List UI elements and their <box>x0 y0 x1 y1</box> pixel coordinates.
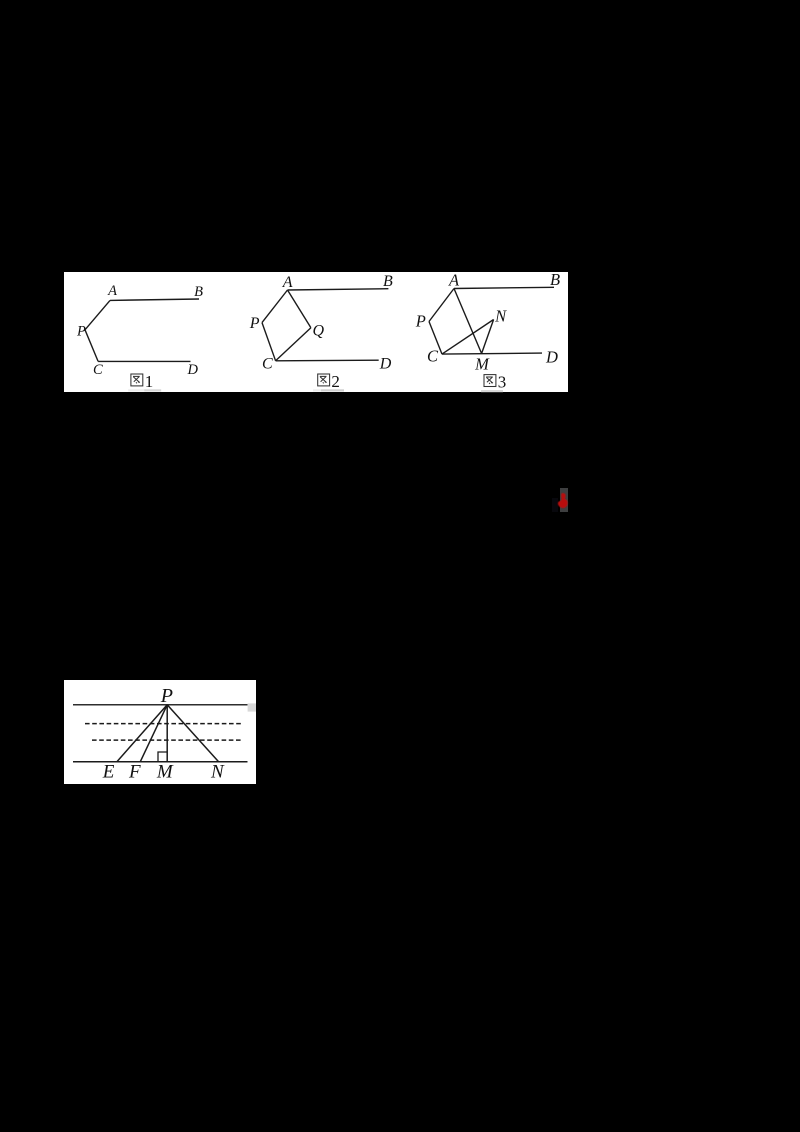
wire: segment P-N <box>167 704 218 761</box>
svg-text:Q: Q <box>313 322 325 339</box>
wire: segment P-C (fig3) <box>429 321 442 354</box>
wire: segment N-M (fig3) <box>482 319 494 353</box>
svg-text:A: A <box>448 272 460 290</box>
wire: segment P-F <box>140 704 167 761</box>
svg-text:D: D <box>187 361 199 377</box>
svg-text:D: D <box>545 347 558 366</box>
wire: segment P-C (fig1) <box>85 329 98 361</box>
wire: segment C-N (fig3) <box>442 319 494 354</box>
wire: dashed line 1 <box>85 722 242 724</box>
svg-text:3: 3 <box>498 372 507 391</box>
svg-text:C: C <box>262 355 273 372</box>
wire: segment P-E <box>117 704 167 761</box>
wire: segment A-P (fig3) <box>429 288 454 321</box>
right-angle mark at M <box>158 752 167 762</box>
svg-text:P: P <box>415 311 426 330</box>
svg-text:F: F <box>128 761 141 782</box>
svg-text:N: N <box>210 761 225 782</box>
wire: segment A-M (fig3) <box>454 288 482 353</box>
wire: segment A-P (fig1) <box>85 300 110 329</box>
caption 图1 <box>131 374 143 386</box>
wire: ray A-B (fig3) <box>454 287 554 288</box>
svg-text:P: P <box>249 314 260 331</box>
wire: segment Q-A (fig2) <box>288 290 311 328</box>
svg-text:1: 1 <box>145 371 154 390</box>
smudge near top-right <box>248 703 256 711</box>
svg-text:N: N <box>494 306 507 325</box>
wire: segment C-Q (fig2) <box>276 327 311 360</box>
red cursor badge <box>552 498 558 512</box>
svg-text:B: B <box>194 284 203 300</box>
wire: ray A-B (fig1) <box>110 299 199 300</box>
wire: dashed line 2 <box>92 739 241 741</box>
wire: ray C-D (fig2) <box>276 359 379 362</box>
wire: segment A-P (fig2) <box>262 290 288 323</box>
svg-text:P: P <box>160 685 173 707</box>
svg-text:C: C <box>93 361 103 377</box>
svg-text:2: 2 <box>331 371 340 390</box>
svg-text:D: D <box>379 355 392 372</box>
figure panel 2 (P above line EFMN) <box>64 680 256 784</box>
svg-text:C: C <box>427 346 439 365</box>
wire: top horizontal line through P <box>73 703 248 705</box>
svg-text:B: B <box>550 272 560 289</box>
wire: ray C-D (fig3) <box>442 353 542 354</box>
wire: segment P-M (perpendicular) <box>166 704 168 761</box>
svg-text:M: M <box>474 354 490 373</box>
svg-text:M: M <box>156 761 174 782</box>
caption 图2 <box>318 374 330 386</box>
caption 图3 <box>484 374 496 386</box>
wire: segment P-C (fig2) <box>262 322 276 360</box>
wire: ray C-D (fig1) <box>98 360 190 362</box>
wire: ray A-B (fig2) <box>288 288 389 289</box>
svg-text:E: E <box>102 761 115 782</box>
figure panel 1 (three diagrams) <box>64 272 568 393</box>
svg-text:A: A <box>107 283 117 299</box>
svg-text:A: A <box>282 274 293 291</box>
svg-text:P: P <box>76 323 86 339</box>
wire: bottom horizontal line E-F-M-N <box>73 760 248 762</box>
svg-text:B: B <box>383 273 393 290</box>
